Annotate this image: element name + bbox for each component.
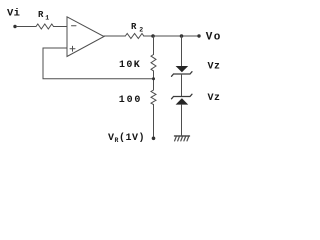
op-amp plus sign: [70, 46, 75, 51]
svg-text:1: 1: [45, 15, 49, 22]
resistor R1: [36, 24, 54, 29]
svg-text:100: 100: [119, 95, 142, 106]
svg-text:Vo: Vo: [206, 31, 222, 43]
svg-text:R: R: [115, 137, 119, 144]
terminal VR: [152, 137, 156, 141]
node C junction dot: [152, 77, 155, 80]
svg-text:Vz: Vz: [208, 93, 221, 104]
svg-text:R: R: [38, 10, 44, 20]
zener D2: [172, 94, 193, 104]
wire R2 to Vo terminal: [144, 35, 198, 37]
svg-text:2: 2: [139, 26, 143, 33]
wire D1 to D2: [181, 74, 183, 97]
label VR(1V): [108, 132, 145, 144]
node A junction dot: [151, 34, 155, 38]
wire D2 down to ground: [181, 105, 183, 136]
resistor 10K: [151, 55, 156, 71]
svg-text:10K: 10K: [119, 60, 141, 71]
input terminal: [13, 25, 16, 28]
node B junction dot: [180, 34, 184, 38]
wire node B down to zener D1: [181, 36, 183, 66]
wire input to R1: [17, 26, 36, 28]
resistor 100: [151, 90, 156, 105]
svg-text:V: V: [108, 133, 114, 144]
op-amp U1: [67, 17, 104, 57]
wire noninverting input loop: [43, 48, 154, 79]
wire 100 down to VR terminal: [153, 105, 155, 138]
wire node A down to 10K: [153, 36, 155, 55]
resistor R2: [125, 34, 144, 39]
wire R1 to op-amp: [54, 26, 68, 28]
svg-text:Vi: Vi: [7, 8, 20, 20]
label R2: [131, 22, 143, 33]
zener D1: [172, 66, 193, 76]
terminal Vo: [197, 34, 200, 37]
svg-text:Vz: Vz: [208, 61, 221, 72]
op-amp minus sign: [72, 25, 77, 27]
wire op-amp output: [104, 35, 125, 37]
svg-text:R: R: [131, 22, 137, 32]
wire 10K to junction: [153, 71, 155, 90]
label R1: [38, 10, 49, 21]
ground: [175, 136, 190, 141]
svg-text:(1V): (1V): [119, 132, 145, 144]
